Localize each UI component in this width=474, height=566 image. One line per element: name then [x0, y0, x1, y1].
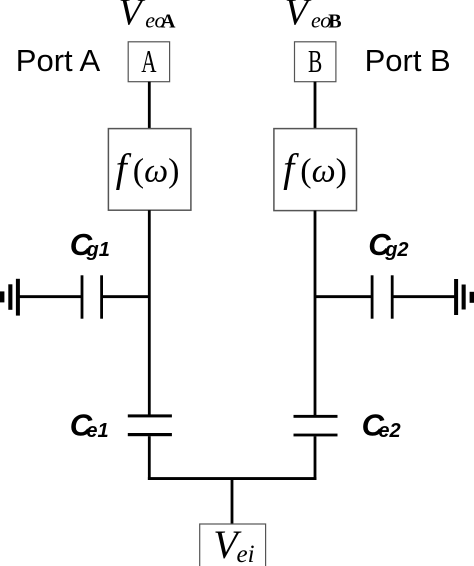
wire Cg1 to left branch: [103, 295, 151, 298]
wire Ce2 to bottom bus: [314, 436, 317, 480]
svg-text:ei: ei: [237, 541, 255, 566]
capacitor Cg2 label: [368, 227, 408, 262]
wire f(w) left box down to Ce1: [148, 210, 151, 415]
wire right branch to Cg2: [315, 295, 372, 298]
svg-text:V: V: [119, 0, 146, 34]
capacitor Ce2: [294, 415, 338, 437]
port terminal box A: [128, 42, 169, 82]
capacitor Cg1: [81, 275, 103, 318]
node label V_eoA: [119, 0, 177, 34]
ground left: [0, 279, 20, 316]
svg-text:g1: g1: [86, 239, 110, 261]
source box Vei: [200, 522, 266, 566]
svg-text:A: A: [161, 11, 176, 33]
capacitor Ce1 label: [70, 407, 109, 442]
port label Port A: [16, 43, 101, 78]
svg-text:(ω): (ω): [133, 153, 180, 190]
svg-text:(ω): (ω): [300, 153, 347, 190]
port terminal box B: [295, 42, 336, 82]
svg-text:Port B: Port B: [365, 43, 451, 78]
svg-text:e1: e1: [86, 420, 108, 442]
svg-text:e2: e2: [378, 420, 400, 442]
svg-text:f: f: [283, 146, 299, 191]
svg-text:Port A: Port A: [16, 43, 101, 78]
capacitor Ce2 label: [362, 407, 401, 442]
bottom bus wire: [148, 477, 317, 480]
wire B box to f(w) box: [314, 82, 317, 129]
wire Cg2 to ground right: [393, 295, 455, 298]
ground right: [454, 279, 474, 315]
svg-text:f: f: [116, 146, 132, 191]
filter block U2 f(w) right: [274, 129, 357, 211]
port label Port B: [365, 43, 451, 78]
svg-text:B: B: [328, 11, 341, 33]
svg-text:B: B: [308, 44, 322, 79]
node label V_eoB: [285, 0, 342, 34]
capacitor Cg1 label: [70, 227, 110, 262]
svg-text:A: A: [141, 44, 157, 79]
svg-text:V: V: [285, 0, 312, 34]
svg-text:g2: g2: [384, 239, 408, 261]
wire Ce1 to bottom bus: [148, 436, 151, 480]
wire f(w) right box down to Ce2: [314, 211, 317, 416]
capacitor Ce1: [128, 414, 172, 436]
wire ground left to Cg1: [19, 295, 82, 298]
wire A box to f(w) box: [148, 82, 151, 129]
capacitor Cg2: [371, 275, 394, 318]
wire bus to Vei box: [231, 480, 234, 524]
filter block U1 f(w) left: [108, 129, 190, 211]
